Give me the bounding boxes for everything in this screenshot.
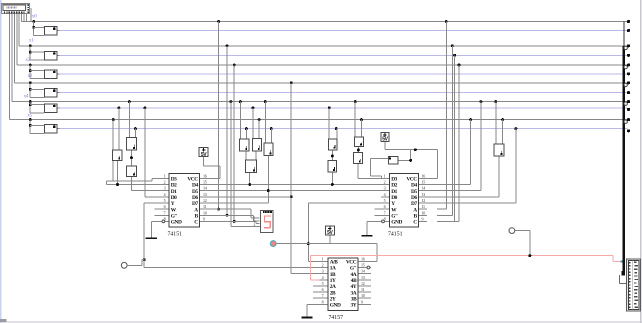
svg-text:1: 1 [322, 256, 324, 261]
svg-text:GND: GND [171, 220, 182, 226]
wire x1 direct line (gray) [19, 45, 628, 46]
node x2 tap junction [29, 64, 32, 67]
svg-text:6: 6 [384, 204, 386, 209]
svg-text:x0: x0 [32, 13, 37, 19]
svg-text:Y: Y [171, 201, 175, 207]
wire S15 link to S16 [358, 147, 359, 152]
svg-text:D7: D7 [192, 201, 198, 207]
svg-text:D0: D0 [391, 195, 397, 201]
wire connector side pin down to x0 row [30, 8, 31, 22]
connector J2 (output, right edge) [626, 258, 641, 311]
U2 pin 8 stub [381, 221, 389, 222]
switch S15 [354, 137, 364, 148]
wire U1 Y output left and down [144, 202, 161, 203]
svg-text:A: A [413, 207, 417, 213]
U1 pin 15 stub [200, 184, 207, 185]
U2 pin 10 stub [419, 215, 427, 216]
wire D5 net: U1 pin 14 to U2 pin 3 [207, 190, 381, 191]
wire x2 switch output stub [57, 73, 59, 74]
wire bus bracket to connector [619, 275, 620, 283]
svg-text:2: 2 [164, 180, 166, 185]
bus wire hops over gray rows [624, 46, 627, 49]
wire x5-gray tap down to U2 pin 15 (D4) [469, 118, 472, 121]
ground GND1 [146, 237, 157, 239]
node x1 tap junction [29, 44, 32, 47]
wire U2 Y output left and down to select net [308, 202, 381, 203]
U3 pin 14 stub [359, 273, 372, 274]
svg-text:9: 9 [422, 216, 424, 221]
svg-text:2: 2 [322, 263, 324, 268]
wire x4 switch output stub [57, 107, 59, 108]
svg-text:14: 14 [422, 186, 426, 191]
wire S12 output to D4 net [249, 173, 250, 184]
svg-text:x3: x3 [27, 73, 32, 79]
U1 pin 3 stub [162, 190, 169, 191]
wire x5-gray tap to switch S18 [501, 118, 504, 121]
bus vertical line right edge [624, 22, 625, 47]
wire x4-gray tap down to display pin 4 [230, 100, 233, 103]
wire x4-gray tap down to U2 pin 14 (D5) [480, 100, 483, 103]
svg-text:1: 1 [384, 173, 386, 178]
wire x3-gray tap down: D6 of U1 and 1B of U3 [290, 81, 293, 84]
U2 pin 11 stub [419, 209, 427, 210]
svg-text:74151: 74151 [168, 231, 183, 237]
power +5V P2 box [381, 132, 390, 142]
U3 pin 1 stub [320, 261, 328, 262]
connector J2 pins [629, 262, 631, 263]
U1 pin 8 stub [162, 221, 169, 222]
svg-text:GND: GND [391, 220, 402, 226]
U2 pin 1 stub [381, 178, 389, 179]
svg-text:D6: D6 [192, 195, 198, 201]
svg-text:x4: x4 [24, 93, 29, 99]
svg-text:D6: D6 [411, 195, 417, 201]
wire x3 direct line (gray) [14, 82, 627, 83]
svg-text:3Y: 3Y [351, 303, 357, 309]
switch S9 [239, 138, 249, 151]
switch S12 [245, 160, 257, 174]
wire x4-gray tap to switch S9 [239, 100, 242, 103]
wire U3 1Y output (red) up [310, 279, 319, 280]
U3 pin 7 stub [313, 298, 328, 299]
wire x3 switched line (blue) [60, 92, 628, 93]
U1 pin 4 stub [162, 196, 169, 197]
wire x0 switch input loop [33, 22, 34, 36]
U2 pin 8 bubble [382, 220, 385, 223]
svg-text:74157: 74157 [329, 315, 344, 321]
svg-text:7: 7 [322, 293, 324, 298]
wire x4-blue tap down to switch S6 [118, 107, 121, 110]
svg-text:GND: GND [330, 303, 341, 309]
switch S11 [264, 143, 274, 157]
wire x4-blue tap down to mux1 pin 4 (D0) [144, 107, 147, 110]
wire x1-gray tap down to U1 pin 10 B [226, 44, 229, 47]
probe PR1 (logic probe) [270, 241, 276, 247]
wire x0 switch output stub [57, 30, 59, 31]
wire x2 switch input loop [30, 65, 31, 79]
wire x2 direct line (gray) [17, 65, 628, 66]
svg-text:16: 16 [422, 173, 426, 178]
svg-text:15: 15 [422, 180, 426, 185]
wire x5-gray tap down to D3/D2 loop [112, 118, 115, 121]
U3 pin 11 stub [359, 292, 372, 293]
svg-text:7: 7 [384, 210, 386, 215]
svg-text:A/B: A/B [330, 260, 339, 266]
wire x4-blue tap to switch S10 [252, 107, 255, 110]
svg-text:2B: 2B [330, 290, 336, 296]
svg-text:1: 1 [164, 173, 166, 178]
U3 pin 3 stub [320, 273, 328, 274]
svg-text:5: 5 [384, 198, 386, 203]
svg-text:D3: D3 [391, 177, 397, 183]
svg-text:5: 5 [164, 198, 166, 203]
switch S18 [494, 144, 505, 157]
switch S5 (x5) [44, 124, 57, 133]
svg-text:1B: 1B [330, 272, 336, 278]
svg-text:14: 14 [361, 269, 365, 274]
svg-text:2Y: 2Y [330, 296, 336, 302]
U3 pin 12 stub [359, 286, 372, 287]
svg-text:C: C [413, 220, 417, 226]
node x4 tap junction [29, 100, 32, 103]
svg-text:2A: 2A [330, 284, 336, 290]
wire x2-gray tap down to U2 pin 9 (C) [458, 64, 461, 67]
wire x4-gray tap down to switch S7 [128, 100, 131, 103]
svg-text:7: 7 [164, 210, 166, 215]
wire D4 net: U1 pin 15 to U2 pin 2 [207, 184, 381, 185]
switch S6 (vertical) [112, 150, 122, 162]
wire D3/D2 capsule loop [107, 181, 153, 182]
U3 pin 4 stub [320, 279, 328, 280]
svg-text:5: 5 [322, 281, 324, 286]
wire x5 switch input loop [30, 120, 31, 134]
IC U1 74151 body [169, 173, 201, 228]
display DS1 digit 5 [264, 215, 271, 228]
svg-text:4: 4 [322, 275, 324, 280]
svg-text:4Y: 4Y [351, 284, 357, 290]
canvas corner mark bottom-left [0, 319, 7, 322]
wire probe to select/VCC net [277, 243, 378, 244]
svg-text:12: 12 [361, 281, 365, 286]
svg-text:D3: D3 [171, 177, 177, 183]
wire column from connector to row x2 [16, 14, 17, 65]
wire x1-blue tap down to C net [453, 54, 456, 57]
switch S3 (x3) [44, 88, 57, 97]
display DS1 (7-segment) [260, 210, 274, 233]
U3 pin 5 stub [313, 286, 328, 287]
wire x0 direct line (gray) [22, 21, 628, 22]
wire jog up to mux1 pin 1 [152, 178, 153, 181]
canvas right edge [640, 0, 641, 323]
switch S8 (vertical, lower) [126, 165, 137, 177]
U2 pin 3 stub [381, 190, 389, 191]
ground GND3 [301, 317, 312, 319]
U1 pin 7 stub [155, 215, 169, 216]
svg-text:6: 6 [322, 287, 324, 292]
svg-text:15: 15 [361, 263, 365, 268]
svg-text:3A: 3A [351, 290, 357, 296]
connector J1 right pins [27, 5, 29, 6]
power +5V P1 box [199, 147, 209, 157]
switch S0 (x0) [44, 26, 57, 35]
wire connector drop columns [24, 14, 25, 22]
wire x0-gray tap down to U2 pin 11 (A) [445, 20, 448, 23]
switch S13 [328, 138, 338, 150]
wire U3 GND to ground [307, 304, 320, 305]
svg-text:11: 11 [203, 204, 207, 209]
wire x4 direct line (gray) [12, 101, 628, 102]
wire x5-blue tap down to U2 pin 12 (D7) [515, 127, 518, 130]
wire U1 C to display [207, 221, 256, 222]
wire red output line to right [310, 255, 612, 256]
svg-text:2: 2 [384, 180, 386, 185]
U1 pin 16 stub [200, 178, 207, 179]
U3 pin 8 stub [320, 304, 328, 305]
U1 pin 13 stub [200, 196, 207, 197]
wire x4 switched line (blue) [60, 107, 628, 108]
U1 pin 9 stub [200, 221, 207, 222]
wire x5-blue tap to switch S9 [245, 127, 248, 130]
wire column from connector to row x4 [11, 14, 12, 102]
U2 pin 5 stub [381, 202, 389, 203]
svg-text:12: 12 [422, 198, 426, 203]
svg-text:11: 11 [422, 204, 426, 209]
svg-text:VCC: VCC [406, 177, 417, 183]
U2 pin 7 stub [375, 215, 390, 216]
wire S13 link to S14 [332, 150, 333, 160]
wire x4-blue tap to switch S13 [328, 107, 331, 110]
svg-text:x5: x5 [27, 112, 32, 118]
svg-text:A: A [194, 207, 198, 213]
wire S6 output to mux1 D2 line [117, 161, 118, 184]
wire x5-blue tap down to switch S7 [134, 127, 137, 130]
wire P2 down and right to U2 VCC [385, 142, 386, 150]
svg-text:D2: D2 [171, 183, 177, 189]
wire x4-gray tap to switch S11 [264, 100, 267, 103]
bus end cap [622, 271, 625, 276]
svg-text:13: 13 [203, 192, 207, 197]
svg-text:G": G" [171, 214, 178, 220]
power +5V P3 box [325, 225, 335, 235]
svg-text:D0: D0 [171, 195, 177, 201]
wire 74157 pin 1 feed [308, 261, 319, 262]
canvas left edge [0, 0, 2, 323]
svg-text:D7: D7 [411, 201, 417, 207]
wire x5-blue tap to switch S11 [270, 127, 273, 130]
switch S1 (x1) [44, 51, 57, 60]
wire x4-gray tap to switch S18 [494, 100, 497, 103]
svg-text:D1: D1 [391, 189, 397, 195]
svg-text:D1: D1 [171, 189, 177, 195]
wire x1-gray tap down to U2 pin 10 (B) [451, 44, 454, 47]
U1 pin 11 stub [200, 209, 207, 210]
wire U1 A to display [207, 209, 251, 210]
node x5 tap junction [29, 118, 32, 121]
wire x2 switched line (blue) [60, 73, 628, 74]
svg-text:4A: 4A [351, 272, 357, 278]
svg-text:VCC: VCC [346, 260, 357, 266]
U2 pin 12 stub [419, 202, 427, 203]
U2 pin 9 stub [419, 221, 427, 222]
wire U1 GND to ground [151, 221, 161, 222]
U3 pin 16 stub [359, 261, 367, 262]
svg-text:Y: Y [391, 201, 395, 207]
wire x5 switch output stub [57, 128, 59, 129]
U3 pin 2 stub [320, 267, 328, 268]
svg-text:15: 15 [203, 180, 207, 185]
U1 pin 5 stub [162, 202, 169, 203]
U1 pin 2 stub [162, 184, 169, 185]
wire S11 output to D5 net and U1 pin 12 (D7) [268, 156, 269, 203]
U3 pin 15 bubble [367, 266, 370, 269]
U2 pin 14 stub [419, 190, 427, 191]
wire S17 input loop [370, 158, 388, 159]
wire column from connector to row x5 [9, 14, 10, 120]
wire select net down to 74157 VCC [377, 244, 378, 262]
wire column from connector to row x3 [14, 14, 15, 83]
wire T2 down to red net [515, 230, 530, 231]
wire x5-gray tap to switch S10 [258, 118, 261, 121]
connector J2 label (rotated) [634, 262, 636, 263]
switch S14 [328, 160, 338, 173]
wire x1 switch output stub [57, 55, 59, 56]
U2 pin 6 stub [375, 209, 390, 210]
svg-text:G": G" [391, 214, 398, 220]
U1 pin 1 stub [162, 178, 169, 179]
switch S7 (vertical, upper) [126, 137, 137, 151]
wire x2-gray tap down to U1 pin 9 C [233, 64, 236, 67]
wire x4-gray tap to switch S15 [354, 100, 357, 103]
switch S2 (x2) [44, 69, 57, 78]
svg-text:3B: 3B [351, 296, 357, 302]
svg-text:C: C [194, 220, 198, 226]
svg-text:3: 3 [322, 269, 324, 274]
wire x3 switch input loop [30, 83, 31, 98]
wire U1 B to display [207, 215, 254, 216]
node red-bus connection [621, 260, 624, 262]
wire Y net to 74157 pin 2 (1A) [144, 260, 145, 268]
svg-text:8: 8 [322, 299, 324, 304]
U2 pin 15 stub [419, 184, 427, 185]
terminal T1 (open circle) [121, 262, 127, 268]
U2 pin 16 stub [419, 178, 427, 179]
svg-text:x1: x1 [29, 38, 34, 44]
svg-text:1Y: 1Y [330, 278, 336, 284]
wire x0 switched line (blue) [60, 30, 628, 31]
wire red jog to connector [612, 256, 613, 262]
svg-text:3: 3 [164, 186, 166, 191]
svg-text:11: 11 [361, 287, 365, 292]
IC U3 74157 body [328, 257, 359, 311]
U3 pin 9 stub [359, 304, 372, 305]
U3 pin 15 stub [359, 267, 372, 268]
svg-text:4: 4 [384, 192, 386, 197]
wire x5 direct line (gray) [9, 119, 627, 120]
node x3 tap junction [29, 81, 32, 84]
U2 pin 2 stub [381, 184, 389, 185]
connector J1 label [5, 6, 8, 8]
connector J1 (input DIP header) [1, 3, 30, 14]
svg-text:10: 10 [203, 210, 207, 215]
svg-text:16: 16 [361, 256, 365, 261]
wire x1 switched line (blue) [60, 55, 628, 56]
svg-text:6: 6 [164, 204, 166, 209]
U3 pin 6 stub [313, 292, 328, 293]
svg-text:13: 13 [361, 275, 365, 280]
U2 pin 4 stub [381, 196, 389, 197]
svg-text:D4: D4 [192, 183, 198, 189]
connector J1 bottom pins [4, 12, 5, 14]
svg-text:12: 12 [203, 198, 207, 203]
U2 pin 13 stub [419, 196, 427, 197]
wire P1 to U1 VCC [203, 157, 204, 166]
terminal T2 (open circle) [509, 228, 515, 234]
svg-text:10: 10 [361, 293, 365, 298]
switch S17 (horizontal) [388, 156, 399, 165]
wire U2 GND to ground [367, 221, 381, 222]
svg-text:3: 3 [384, 186, 386, 191]
U1 pin 12 stub [200, 202, 207, 203]
IC U2 74151 body [389, 173, 419, 228]
svg-text:4B: 4B [351, 278, 357, 284]
svg-text:1A: 1A [330, 266, 336, 272]
svg-text:9: 9 [361, 299, 363, 304]
svg-text:D5: D5 [192, 189, 198, 195]
wire x4 switch input loop [30, 102, 31, 113]
wire S18 output to U2 pin 13 (D6) [498, 157, 499, 197]
U1 pin 14 stub [200, 190, 207, 191]
svg-text:D5: D5 [411, 189, 417, 195]
wire P3 to select/VCC net [329, 235, 330, 243]
wire S10 link to S12 [256, 152, 257, 160]
switch S4 (x4) [44, 104, 57, 113]
svg-text:14: 14 [203, 186, 207, 191]
wire column from connector to row x0 [21, 14, 22, 22]
svg-text:74151: 74151 [388, 231, 403, 237]
wire S16 output to U2 pin 1 (D3) [357, 164, 358, 178]
wire T1 to Y net [127, 265, 142, 266]
svg-text:13: 13 [422, 192, 426, 197]
wire S17 output up to 5V net [399, 160, 411, 161]
wire S9 link to S12 [245, 152, 246, 160]
node x0 tap junction [32, 20, 35, 23]
wire x5 switched line (blue) [60, 128, 628, 129]
wire x3 switch output stub [57, 92, 59, 93]
wire column from connector to row x1 [19, 14, 20, 46]
right edge wire end nodes [627, 20, 630, 23]
wire x1 switch input loop [30, 46, 31, 60]
svg-text:4: 4 [164, 192, 166, 197]
U3 pin 13 stub [359, 279, 372, 280]
svg-text:G": G" [350, 266, 357, 272]
U1 pin 8 bubble [162, 220, 165, 223]
switch S16 [353, 152, 363, 164]
svg-text:16: 16 [203, 173, 207, 178]
wire S7 to S8 link [131, 151, 132, 166]
switch S10 [252, 138, 262, 152]
ground GND2 [361, 235, 372, 237]
svg-text:VCC: VCC [187, 177, 198, 183]
svg-text:9: 9 [203, 216, 205, 221]
wire x0-gray tap down to U1 pin 11 A [217, 20, 220, 23]
svg-text:x2: x2 [25, 57, 30, 63]
wire S8 output to mux1 pin 3 (D1) [131, 177, 132, 191]
svg-text:D4: D4 [411, 183, 417, 189]
U3 pin 10 stub [359, 298, 372, 299]
U1 pin 6 stub [155, 209, 169, 210]
U1 pin 10 stub [200, 215, 207, 216]
wire S14 output to D4 net [332, 173, 333, 185]
